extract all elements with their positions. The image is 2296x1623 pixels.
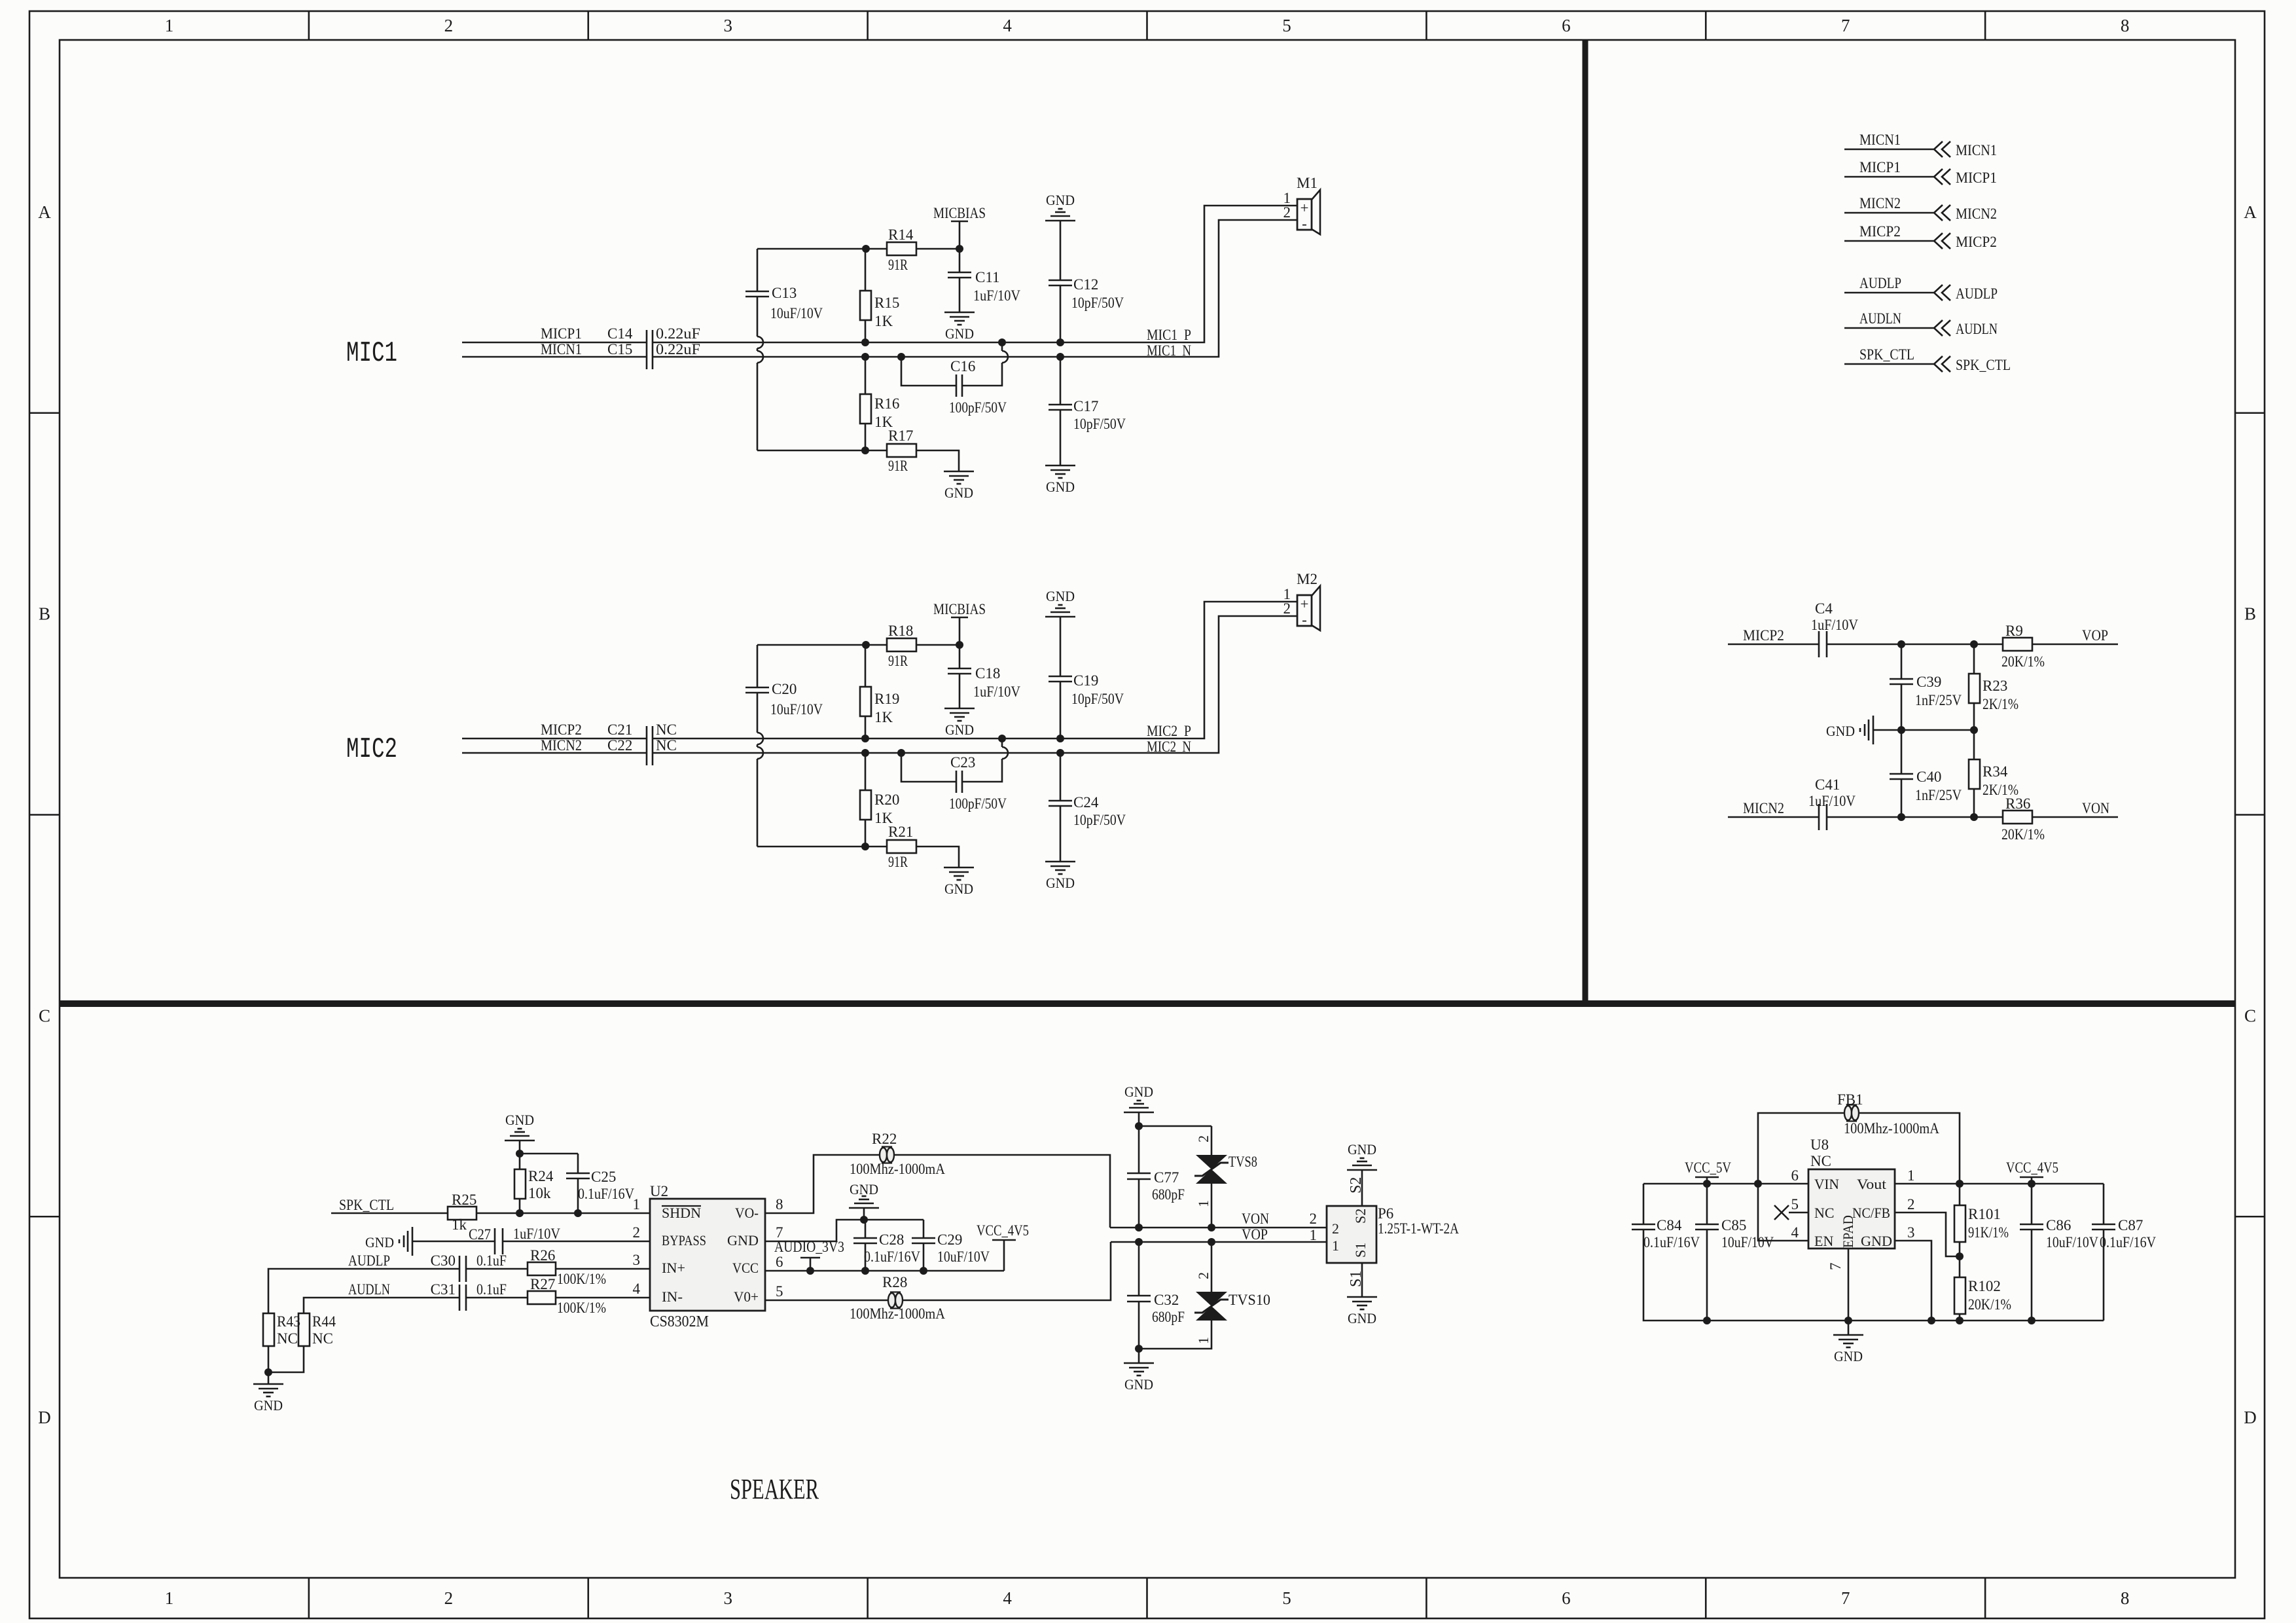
svg-text:3: 3 [723, 16, 732, 35]
junction C19 on P wire [1056, 735, 1064, 742]
svg-text:C32: C32 [1154, 1292, 1179, 1308]
svg-text:8: 8 [2121, 16, 2130, 35]
wire MICP2 input [462, 738, 647, 740]
svg-text:GND: GND [365, 1234, 394, 1250]
svg-text:8: 8 [2121, 1588, 2130, 1608]
svg-text:100K/1%: 100K/1% [557, 1271, 606, 1287]
svg-text:C20: C20 [772, 681, 797, 697]
capacitor C41 [1818, 804, 1820, 830]
ground left of C27 [412, 1227, 414, 1256]
svg-text:R17: R17 [888, 428, 913, 444]
wire gnd to P6 S2 [1361, 1170, 1363, 1206]
wire SPK_CTL [331, 1213, 448, 1214]
svg-text:C25: C25 [591, 1169, 616, 1185]
svg-text:TVS8: TVS8 [1229, 1154, 1257, 1170]
thick section divider horizontal [60, 1000, 2235, 1007]
wire VCC pin6 [765, 1270, 1004, 1272]
svg-text:R22: R22 [872, 1131, 897, 1147]
svg-text:91R: 91R [888, 257, 908, 273]
svg-text:MIC2: MIC2 [346, 733, 397, 766]
svg-text:C23: C23 [950, 754, 975, 771]
svg-text:AUDLP: AUDLP [1859, 275, 1901, 291]
svg-text:R9: R9 [2005, 623, 2023, 639]
svg-text:2: 2 [1283, 204, 1291, 221]
svg-text:C24: C24 [1073, 794, 1099, 811]
junction C28 gnd rail [860, 1216, 868, 1224]
svg-text:2: 2 [444, 1588, 454, 1608]
wire V0+ via R28 [765, 1300, 888, 1302]
svg-text:GND: GND [254, 1397, 283, 1413]
ground under R17 [944, 471, 974, 473]
svg-text:4: 4 [1791, 1224, 1799, 1241]
svg-text:91R: 91R [888, 458, 908, 474]
svg-text:R20: R20 [874, 792, 899, 808]
svg-text:+: + [1300, 200, 1309, 216]
wire EPAD gnd stub [1848, 1321, 1850, 1335]
svg-text:-: - [1302, 611, 1307, 628]
svg-text:FB1: FB1 [1837, 1091, 1863, 1108]
svg-text:10uF/10V: 10uF/10V [937, 1249, 990, 1265]
svg-text:VCC_5V: VCC_5V [1685, 1159, 1731, 1176]
svg-text:1k: 1k [452, 1216, 467, 1233]
svg-text:B: B [39, 604, 50, 624]
svg-text:6: 6 [1562, 16, 1571, 35]
svg-text:+: + [1300, 596, 1309, 612]
svg-text:NC: NC [1814, 1205, 1835, 1221]
resistor R18 [866, 644, 887, 646]
ferrite bead R28 [891, 1292, 900, 1309]
capacitor C25 [577, 1154, 579, 1173]
wire MICP2 to M2 [653, 602, 1297, 739]
net port AUDLP [1844, 292, 1934, 294]
capacitor C27 [494, 1228, 496, 1254]
capacitor C12 [1060, 221, 1062, 280]
resistor R15 [865, 249, 867, 291]
tvs diode TVS10 [1211, 1242, 1213, 1292]
ground under U8 [1833, 1334, 1863, 1336]
wire EPAD to rail [1848, 1249, 1850, 1321]
svg-text:R44: R44 [312, 1313, 336, 1330]
capacitor C18 [959, 645, 961, 668]
svg-text:680pF: 680pF [1152, 1186, 1185, 1203]
svg-text:0.1uF: 0.1uF [476, 1281, 507, 1298]
svg-text:2K/1%: 2K/1% [1982, 696, 2018, 712]
junction C23 right [998, 735, 1006, 742]
resistor R26 [528, 1262, 556, 1275]
svg-text:S2: S2 [1352, 1209, 1369, 1224]
svg-text:C77: C77 [1154, 1169, 1179, 1186]
net port AUDLN [1844, 327, 1934, 329]
net port MICN2 [1844, 212, 1934, 214]
junction gnd rail R34 [1970, 726, 1978, 734]
svg-text:C87: C87 [2118, 1217, 2143, 1233]
capacitor C23 [901, 753, 1002, 782]
svg-text:MICP1: MICP1 [1956, 170, 1997, 186]
svg-text:R26: R26 [530, 1247, 555, 1264]
svg-text:0.1uF/16V: 0.1uF/16V [1643, 1234, 1700, 1250]
wire bottom rail MIC1 [757, 450, 866, 452]
svg-text:100K/1%: 100K/1% [557, 1300, 606, 1316]
wire MICN1 input [462, 356, 647, 358]
junction C25 bottom [574, 1209, 582, 1217]
svg-text:-: - [1302, 215, 1307, 232]
capacitor C86 [2031, 1184, 2033, 1224]
svg-text:C19: C19 [1073, 672, 1098, 689]
svg-text:4: 4 [1003, 16, 1012, 35]
junction AUDIO_3V3 tap [806, 1267, 814, 1275]
svg-text:GND: GND [1348, 1310, 1376, 1326]
svg-text:100pF/50V: 100pF/50V [949, 795, 1007, 812]
resistor R9 [2003, 638, 2032, 651]
capacitor C24 [1060, 753, 1062, 801]
svg-text:0.22uF: 0.22uF [656, 341, 700, 357]
svg-text:MICBIAS: MICBIAS [933, 205, 986, 221]
border column ticks [308, 11, 310, 40]
svg-text:MICP1: MICP1 [541, 325, 582, 342]
wire MICN2 to VON [1728, 816, 1819, 818]
svg-text:NC: NC [1810, 1153, 1831, 1169]
resistor R23 [1973, 644, 1975, 674]
capacitor C21 [646, 726, 648, 765]
svg-text:S2: S2 [1348, 1177, 1365, 1194]
wire top rail MIC1 [757, 248, 866, 250]
svg-text:1: 1 [1310, 1227, 1318, 1243]
junction R20 top [861, 749, 869, 757]
svg-text:EPAD: EPAD [1840, 1215, 1856, 1248]
capacitor C39 [1901, 644, 1903, 679]
svg-text:D: D [38, 1408, 51, 1427]
capacitor C32 [1138, 1242, 1140, 1296]
svg-text:GND: GND [850, 1181, 878, 1197]
svg-text:AUDLP: AUDLP [1956, 285, 1998, 302]
svg-text:MICN2: MICN2 [1956, 206, 1997, 222]
svg-text:VON: VON [2082, 800, 2109, 816]
svg-text:MICP1: MICP1 [1859, 159, 1901, 175]
resistor R25 [448, 1207, 476, 1220]
svg-text:MIC1 P: MIC1 P [1147, 327, 1191, 343]
svg-text:1: 1 [1332, 1237, 1339, 1254]
svg-text:P6: P6 [1378, 1205, 1393, 1222]
wire VOP [1111, 1241, 1327, 1243]
svg-text:GND: GND [727, 1232, 759, 1249]
svg-text:10uF/10V: 10uF/10V [1721, 1234, 1774, 1250]
svg-text:MICP2: MICP2 [1956, 234, 1997, 250]
svg-text:GND: GND [1348, 1141, 1376, 1158]
svg-text:100pF/50V: 100pF/50V [949, 399, 1007, 416]
svg-text:AUDLN: AUDLN [1859, 310, 1901, 327]
wire P6 S1 to gnd [1361, 1263, 1363, 1297]
svg-text:AUDLN: AUDLN [1956, 321, 1998, 337]
svg-text:C17: C17 [1073, 398, 1098, 414]
svg-text:GND: GND [1046, 875, 1075, 891]
svg-text:SPEAKER: SPEAKER [730, 1473, 819, 1505]
svg-text:B: B [2244, 604, 2256, 624]
wire AUDLN [304, 1298, 459, 1313]
svg-text:1uF/10V: 1uF/10V [1808, 793, 1856, 809]
resistor R34 [1973, 730, 1975, 759]
svg-text:MICBIAS: MICBIAS [933, 601, 986, 617]
svg-text:91K/1%: 91K/1% [1968, 1224, 2009, 1241]
svg-text:GND: GND [1826, 723, 1855, 739]
svg-text:GND: GND [944, 484, 973, 501]
svg-text:MICN2: MICN2 [1859, 195, 1901, 211]
junction MICBIAS MIC2 [956, 641, 963, 649]
svg-text:6: 6 [1562, 1588, 1571, 1608]
svg-text:C27: C27 [469, 1226, 491, 1243]
svg-text:VIN: VIN [1814, 1176, 1839, 1192]
svg-text:R43: R43 [277, 1313, 300, 1330]
regulator U8 [1808, 1169, 1895, 1249]
svg-text:1uF/10V: 1uF/10V [513, 1226, 560, 1242]
capacitor C84 [1643, 1184, 1707, 1321]
svg-text:NC: NC [312, 1330, 333, 1347]
svg-text:C13: C13 [772, 285, 797, 301]
ground above C19 [1045, 616, 1075, 618]
svg-text:10pF/50V: 10pF/50V [1071, 295, 1124, 311]
svg-text:6: 6 [776, 1254, 783, 1270]
svg-text:C21: C21 [607, 721, 632, 738]
svg-text:VCC_4V5: VCC_4V5 [977, 1222, 1029, 1239]
svg-text:R102: R102 [1968, 1278, 2001, 1294]
svg-text:AUDLN: AUDLN [348, 1281, 390, 1298]
svg-text:R101: R101 [1968, 1206, 2001, 1222]
svg-text:1uF/10V: 1uF/10V [973, 287, 1020, 304]
junction C17 top [1056, 353, 1064, 361]
svg-text:SHDN: SHDN [662, 1205, 701, 1221]
wire MICN2 to M2 [653, 616, 1297, 753]
junction C16 right [998, 338, 1006, 346]
junction C40 bottom [1897, 813, 1905, 821]
svg-text:MICN1: MICN1 [541, 341, 582, 357]
svg-text:SPK_CTL: SPK_CTL [339, 1197, 394, 1213]
svg-text:10uF/10V: 10uF/10V [2046, 1234, 2098, 1250]
svg-text:2: 2 [1283, 600, 1291, 617]
wire gnd to C77/TVS8 [1138, 1112, 1140, 1126]
junction C85 bottom [1703, 1317, 1711, 1324]
svg-text:1K: 1K [874, 313, 893, 329]
svg-text:1uF/10V: 1uF/10V [973, 684, 1020, 700]
svg-text:C39: C39 [1916, 674, 1941, 690]
capacitor C31 [459, 1285, 461, 1311]
wire BYPASS pin2 [412, 1241, 495, 1243]
svg-text:1uF/10V: 1uF/10V [1811, 617, 1858, 633]
svg-text:2: 2 [444, 16, 454, 35]
wire GND pin3 U8 [1895, 1241, 1931, 1321]
capacitor C20 [757, 645, 759, 687]
svg-text:1.25T-1-WT-2A: 1.25T-1-WT-2A [1378, 1220, 1459, 1237]
resistor R36 [2003, 811, 2032, 824]
capacitor C29 [923, 1220, 925, 1238]
junction EPAD rail [1844, 1317, 1852, 1324]
junction pin3 rail [1928, 1317, 1935, 1324]
ground under C32 [1124, 1362, 1154, 1364]
svg-text:MICN1: MICN1 [1859, 132, 1901, 148]
resistor R21 [866, 846, 887, 848]
svg-text:2: 2 [1332, 1220, 1339, 1237]
svg-text:R23: R23 [1982, 678, 2007, 694]
svg-text:3: 3 [1907, 1224, 1915, 1241]
svg-text:VCC_4V5: VCC_4V5 [2006, 1159, 2058, 1176]
svg-text:A: A [38, 202, 51, 222]
svg-text:V0+: V0+ [734, 1288, 759, 1305]
thick section divider vertical [1583, 40, 1588, 1007]
resistor R24 [519, 1154, 521, 1169]
svg-text:GND: GND [1834, 1348, 1863, 1364]
svg-text:7: 7 [1827, 1263, 1844, 1271]
ground under C11 [944, 312, 975, 314]
svg-text:C: C [39, 1006, 50, 1025]
wire gnd to R24/C25 [519, 1140, 521, 1154]
net port SPK_CTL [1844, 363, 1934, 365]
svg-text:VO-: VO- [735, 1205, 759, 1221]
svg-text:C: C [2244, 1006, 2256, 1025]
svg-text:1: 1 [165, 1588, 174, 1608]
svg-text:1nF/25V: 1nF/25V [1915, 787, 1962, 803]
junction VCC_4V5 tap U8 [2028, 1180, 2036, 1188]
svg-text:C16: C16 [950, 358, 975, 374]
svg-text:AUDIO_3V3: AUDIO_3V3 [774, 1239, 844, 1255]
svg-text:7: 7 [1841, 1588, 1850, 1608]
junction R top MIC1 [862, 245, 870, 253]
svg-text:0.1uF/16V: 0.1uF/16V [864, 1249, 920, 1265]
svg-text:GND: GND [505, 1112, 534, 1128]
svg-text:C11: C11 [975, 269, 1000, 285]
svg-text:MICP2: MICP2 [1859, 223, 1901, 240]
svg-text:GND: GND [945, 325, 974, 342]
svg-text:MIC2 P: MIC2 P [1147, 723, 1191, 739]
svg-text:10pF/50V: 10pF/50V [1073, 812, 1126, 828]
svg-text:2: 2 [1907, 1196, 1915, 1213]
svg-text:C85: C85 [1721, 1217, 1746, 1233]
ferrite bead FB1 [1758, 1113, 1844, 1184]
svg-text:1: 1 [633, 1196, 641, 1213]
capacitor C19 [1060, 617, 1062, 676]
svg-text:VCC: VCC [732, 1260, 759, 1276]
svg-text:2: 2 [1195, 1135, 1211, 1142]
svg-text:VOP: VOP [1242, 1226, 1268, 1243]
svg-text:C29: C29 [937, 1231, 962, 1248]
svg-text:MICN2: MICN2 [541, 737, 582, 754]
svg-text:GND: GND [1046, 588, 1075, 604]
svg-text:4: 4 [633, 1281, 641, 1297]
svg-text:100Mhz-1000mA: 100Mhz-1000mA [850, 1305, 945, 1322]
svg-text:1nF/25V: 1nF/25V [1915, 692, 1962, 708]
svg-text:6: 6 [1791, 1167, 1799, 1184]
wire MICP1 input [462, 342, 647, 344]
junction C77 bottom [1135, 1224, 1143, 1231]
wire VIN rail [1643, 1183, 1808, 1185]
svg-text:R18: R18 [888, 623, 913, 639]
junction C24 top [1056, 749, 1064, 757]
svg-text:0.1uF/16V: 0.1uF/16V [578, 1186, 634, 1202]
wire GND pin7 [765, 1220, 864, 1241]
ground under P6 [1347, 1296, 1377, 1298]
junction FB1 left [1754, 1180, 1762, 1188]
svg-text:R25: R25 [452, 1192, 476, 1208]
power tap AUDIO_3V3 [800, 1257, 820, 1259]
svg-text:VOP: VOP [2082, 627, 2108, 644]
svg-text:AUDLP: AUDLP [348, 1252, 390, 1269]
svg-text:R24: R24 [528, 1168, 554, 1184]
wire bottom rail MIC2 [757, 846, 866, 848]
svg-text:1: 1 [1195, 1337, 1211, 1344]
svg-text:R16: R16 [874, 395, 899, 412]
wire MICP2 to VOP [1728, 644, 1819, 646]
junction C28 bottom [861, 1267, 869, 1275]
svg-text:C12: C12 [1073, 276, 1098, 293]
svg-text:C30: C30 [431, 1252, 456, 1269]
junction R15 bottom [861, 338, 869, 346]
connector P6 [1327, 1206, 1376, 1263]
resistor R20 [865, 753, 867, 790]
junction C86 bottom [2028, 1317, 2036, 1324]
svg-text:2: 2 [633, 1224, 641, 1241]
junction C39 top [1897, 640, 1905, 648]
svg-text:0.1uF/16V: 0.1uF/16V [2100, 1234, 2156, 1250]
svg-text:MICN1: MICN1 [1956, 142, 1997, 158]
svg-text:4: 4 [1003, 1588, 1012, 1608]
junction TVS10 top [1208, 1238, 1215, 1246]
junction R19 bottom [861, 735, 869, 742]
capacitor C16 [901, 357, 1002, 386]
svg-text:7: 7 [1841, 16, 1850, 35]
svg-text:IN+: IN+ [662, 1260, 685, 1276]
junction bottom MIC1 [861, 447, 869, 454]
svg-text:10k: 10k [528, 1185, 551, 1201]
svg-text:3: 3 [633, 1252, 641, 1268]
svg-text:C31: C31 [431, 1281, 456, 1298]
resistor R101 [1959, 1184, 1961, 1205]
wire ground rail U8 [1707, 1320, 2104, 1322]
svg-text:BYPASS: BYPASS [662, 1232, 706, 1249]
svg-text:IN-: IN- [662, 1288, 683, 1305]
svg-text:M2: M2 [1297, 571, 1318, 587]
svg-text:R27: R27 [530, 1276, 555, 1292]
ground under R43/R44 [253, 1383, 283, 1385]
svg-text:10pF/50V: 10pF/50V [1071, 691, 1124, 707]
junction R101 bottom [1956, 1252, 1964, 1260]
svg-text:C28: C28 [879, 1231, 904, 1248]
svg-text:GND: GND [1124, 1084, 1153, 1100]
svg-text:GND: GND [1046, 192, 1075, 208]
svg-text:0.22uF: 0.22uF [656, 325, 700, 342]
resistor R102 [1959, 1256, 1961, 1277]
svg-text:C18: C18 [975, 665, 1000, 682]
ground under R21 [944, 867, 974, 869]
svg-text:8: 8 [776, 1196, 783, 1213]
junction R43 R44 bottom [264, 1368, 272, 1376]
junction R top MIC2 [862, 641, 870, 649]
svg-text:91R: 91R [888, 653, 908, 669]
junction R23 top [1970, 640, 1978, 648]
junction C32 bottom [1135, 1345, 1143, 1353]
svg-text:100Mhz-1000mA: 100Mhz-1000mA [850, 1161, 945, 1177]
svg-text:CS8302M: CS8302M [650, 1313, 709, 1330]
wire Vout rail [1895, 1183, 2104, 1185]
ground above P6 [1347, 1169, 1377, 1171]
op-amp U2 [650, 1199, 765, 1311]
svg-text:20K/1%: 20K/1% [2001, 653, 2045, 670]
junction R34 bottom [1970, 813, 1978, 821]
svg-text:2: 2 [1310, 1211, 1318, 1227]
junction C23 left [897, 749, 905, 757]
junction C32 top [1135, 1238, 1143, 1246]
resistor R27 [528, 1291, 556, 1304]
svg-text:C86: C86 [2046, 1217, 2071, 1233]
svg-text:5: 5 [1282, 16, 1291, 35]
svg-text:GND: GND [945, 721, 974, 738]
ground above C12 [1045, 220, 1075, 222]
